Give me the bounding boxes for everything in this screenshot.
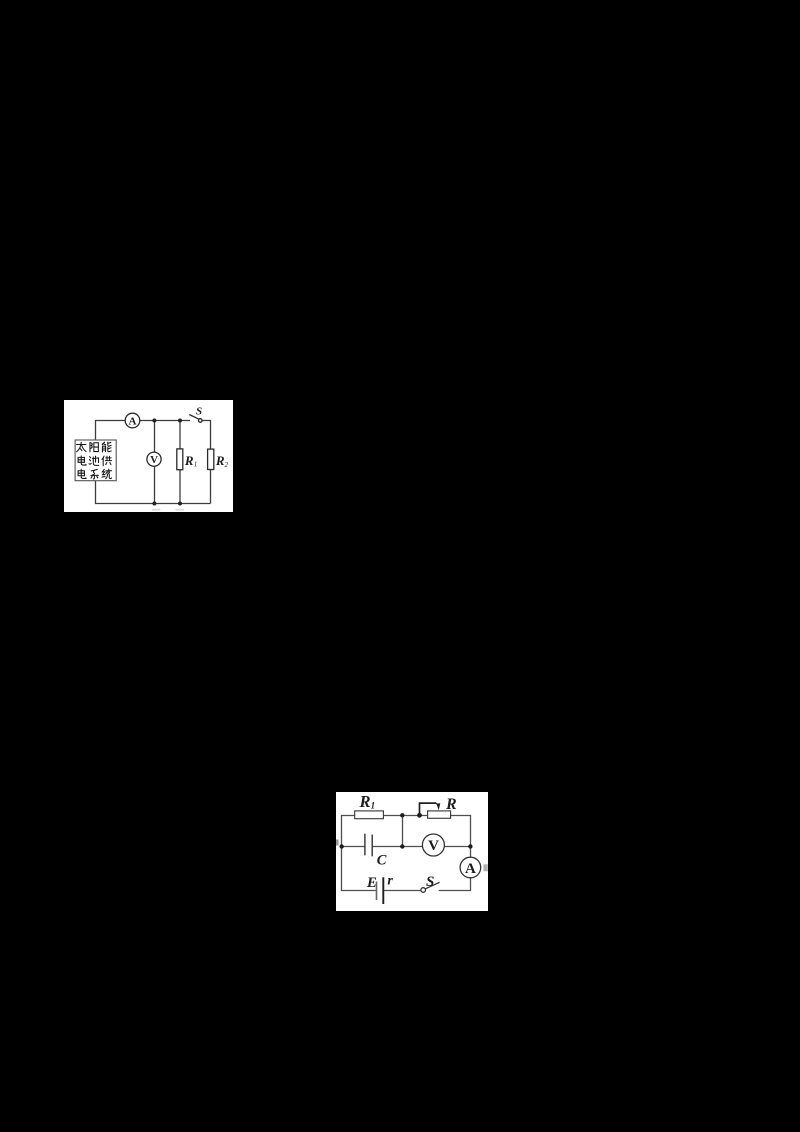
battery E r bbox=[376, 882, 378, 901]
wire top: box to ammeter to switch bbox=[96, 421, 191, 441]
wire right/A branch bbox=[439, 847, 471, 891]
svg-text:V: V bbox=[150, 454, 158, 466]
wire middle bbox=[342, 846, 471, 848]
svg-text:V: V bbox=[428, 838, 439, 854]
svg-text:R: R bbox=[215, 453, 225, 468]
wire V branch bbox=[154, 421, 156, 504]
char 电 bbox=[78, 456, 86, 465]
svg-text:r: r bbox=[387, 874, 393, 889]
svg-text:E: E bbox=[366, 875, 377, 891]
wire: switch to R2 corner bbox=[202, 421, 210, 450]
char 系 bbox=[91, 469, 98, 479]
switch S bbox=[189, 415, 198, 420]
wire bottom bbox=[96, 481, 211, 504]
wire R1 branch bbox=[179, 421, 181, 504]
scan tab left bbox=[336, 840, 339, 846]
resistor R1 bbox=[355, 811, 384, 819]
svg-text:R: R bbox=[359, 792, 371, 811]
ammeter A1 bbox=[125, 413, 140, 428]
circuit 2: RC with battery bbox=[336, 792, 488, 911]
char 太 bbox=[77, 442, 86, 452]
resistor R1 bbox=[177, 449, 183, 470]
char 电 bbox=[78, 469, 86, 478]
wire mid vertical bbox=[402, 816, 404, 847]
rheostat R bbox=[428, 811, 451, 818]
voltmeter V bbox=[422, 834, 444, 856]
source box 太阳能电池供电系统 bbox=[75, 440, 116, 481]
svg-text:1: 1 bbox=[371, 800, 376, 810]
char 池 bbox=[89, 456, 99, 465]
switch S bbox=[421, 888, 426, 893]
scan smudges bbox=[152, 509, 161, 511]
char 供 bbox=[102, 456, 112, 466]
svg-text:2: 2 bbox=[225, 461, 229, 469]
svg-text:R: R bbox=[184, 453, 194, 468]
scan tab right bbox=[483, 864, 487, 871]
svg-text:A: A bbox=[129, 415, 137, 427]
svg-text:A: A bbox=[465, 861, 476, 877]
resistor R2 bbox=[208, 449, 214, 469]
svg-text:C: C bbox=[377, 852, 387, 868]
wire top bbox=[342, 816, 471, 847]
circuit 1: solar-cell supply system bbox=[64, 400, 233, 512]
char 阳 bbox=[90, 442, 98, 451]
voltmeter V1 bbox=[147, 452, 161, 466]
ammeter A bbox=[460, 857, 481, 878]
wire bottom-left bbox=[342, 847, 422, 891]
svg-text:1: 1 bbox=[194, 461, 198, 469]
junction dots bbox=[152, 419, 156, 423]
svg-text:S: S bbox=[426, 874, 434, 890]
capacitor C bbox=[364, 834, 366, 856]
wire: R2 bottom bbox=[210, 470, 212, 504]
char 能 bbox=[102, 442, 111, 452]
junction dots bbox=[400, 813, 404, 817]
svg-text:R: R bbox=[445, 796, 457, 813]
char 统 bbox=[102, 469, 112, 479]
svg-text:S: S bbox=[196, 405, 202, 417]
